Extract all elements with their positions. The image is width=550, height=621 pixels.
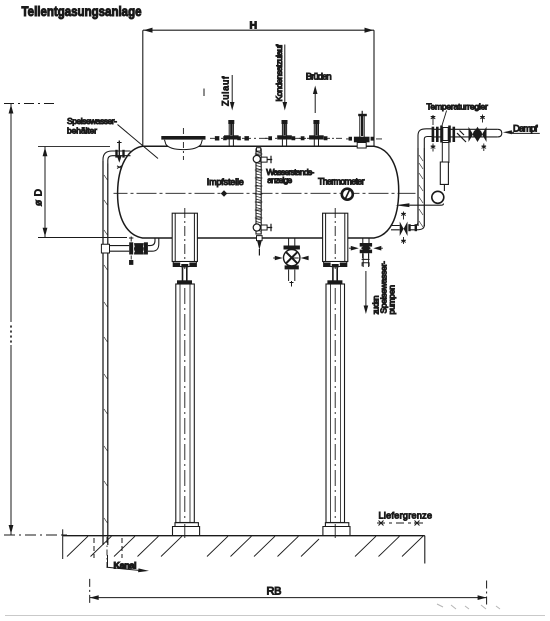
nozzle Zulauf	[224, 120, 239, 146]
arrow Brueden	[313, 86, 318, 114]
support right saddle	[323, 208, 348, 284]
floor hatching	[67, 536, 423, 556]
floor line	[63, 529, 425, 563]
stray mark near Zulauf	[203, 89, 205, 97]
flange bolt marks nozzles	[215, 136, 374, 140]
leader Speisewasserbehaelter	[118, 125, 159, 159]
level gauge Wasserstandsanzeige	[253, 148, 272, 256]
label Liefergrenze	[377, 511, 432, 526]
elbow to vessel bottom left	[148, 238, 159, 251]
svg-text:H: H	[250, 20, 258, 32]
svg-text:Speisewasser-: Speisewasser-	[67, 116, 117, 126]
svg-text:Dampf: Dampf	[513, 123, 538, 134]
leader Temperaturregler	[442, 111, 447, 128]
svg-text:Brüden: Brüden	[306, 72, 332, 83]
label zu den Speisewasserpumpen	[370, 261, 396, 315]
left overall height dimension line	[9, 104, 14, 535]
dimension D extension line top	[38, 145, 110, 147]
floor reference dash-dot line left	[4, 534, 67, 536]
outlet to feedwater pumps	[349, 238, 383, 314]
dimension H line	[143, 28, 374, 33]
arrow Kondensatzulauf	[283, 45, 288, 111]
support right leg	[323, 284, 350, 538]
steam line horizontal	[432, 129, 502, 137]
label Kanal	[108, 555, 150, 572]
nozzle Brueden	[309, 120, 324, 146]
vessel Speisewasserbehaelter outline	[118, 146, 399, 238]
svg-text:RB: RB	[267, 586, 283, 598]
steam pipe bottom run	[391, 212, 424, 245]
steam pipe elbow top right	[418, 129, 432, 148]
svg-text:Impfstelle: Impfstelle	[207, 177, 244, 187]
svg-text:pumpen: pumpen	[387, 285, 397, 315]
svg-text:ø D: ø D	[34, 189, 45, 206]
svg-text:Teilentgasungsanlage: Teilentgasungsanlage	[22, 4, 142, 19]
tangent line left	[142, 30, 144, 238]
tangent line right	[373, 30, 375, 147]
support left leg	[173, 284, 200, 538]
feed pipe top flanged inlet	[113, 141, 131, 169]
control valve with handwheel	[469, 115, 487, 152]
thermometer symbol	[342, 189, 353, 200]
svg-text:Liefergrenze: Liefergrenze	[379, 511, 433, 521]
temperature regulator valve	[395, 126, 450, 208]
arrow Zulauf	[230, 75, 235, 111]
feed pipe bottom branch	[101, 244, 129, 253]
svg-text:Temperaturregler: Temperaturregler	[426, 101, 488, 111]
dimension D extension line bottom	[38, 237, 127, 239]
svg-text:anzeige: anzeige	[267, 175, 292, 185]
svg-text:Kondensatzulauf: Kondensatzulauf	[274, 44, 284, 102]
label Dampf	[512, 123, 540, 134]
Impfstelle point	[221, 190, 227, 196]
nozzle flange centerline	[210, 137, 382, 140]
svg-text:Zulauf: Zulauf	[220, 76, 230, 106]
flange after regulator	[453, 127, 467, 142]
top reference dash-dot line	[4, 103, 54, 105]
arrow Dampf	[503, 130, 514, 134]
dimension RB	[90, 579, 487, 605]
left feed pipe vertical	[103, 151, 113, 545]
drain valve under vessel	[273, 238, 308, 287]
flange pair on steam line	[431, 115, 439, 152]
svg-text:behälter: behälter	[67, 126, 97, 136]
support left saddle	[172, 208, 197, 284]
nozzle Kondensatzulauf	[277, 120, 292, 146]
canal hidden lines	[94, 537, 122, 568]
nozzle tall vent	[354, 111, 370, 148]
svg-text:Thermometer: Thermometer	[318, 177, 365, 187]
steam pipe vertical right	[418, 148, 424, 227]
manhole	[161, 128, 205, 160]
valve on bottom branch	[129, 237, 148, 265]
faint scan artifact line	[5, 615, 545, 617]
label Speisewasserbehaelter	[67, 116, 117, 136]
vessel centerline	[114, 192, 416, 194]
dimension D line	[43, 147, 48, 237]
